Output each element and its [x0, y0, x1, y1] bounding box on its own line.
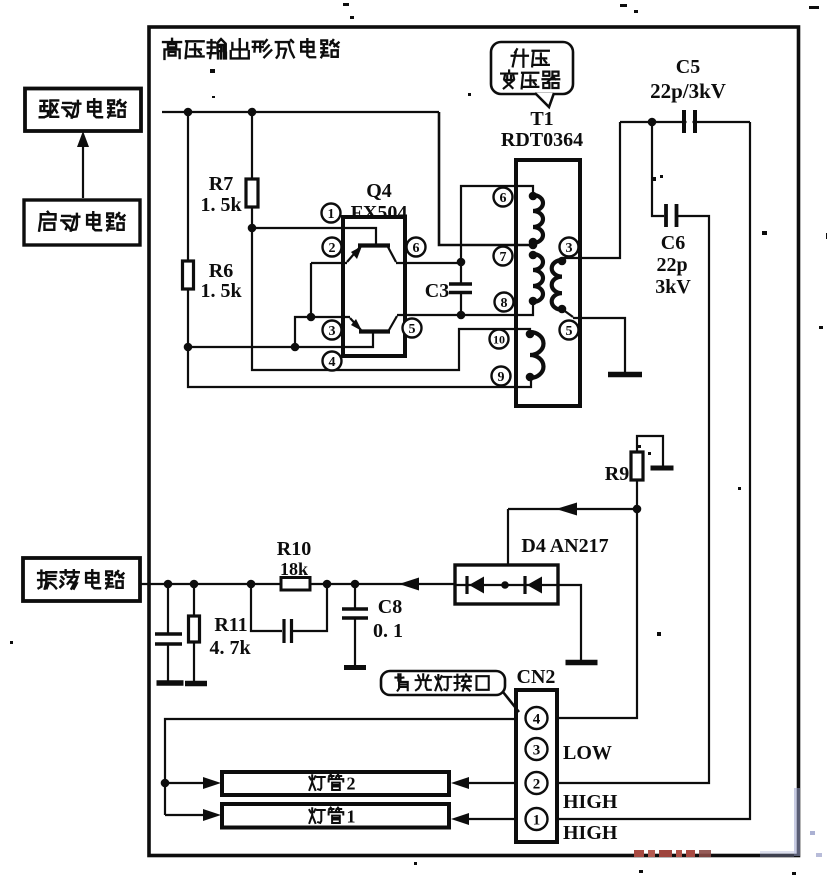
svg-text:HIGH: HIGH [563, 822, 618, 844]
pin 1 of CN2 [526, 808, 548, 830]
svg-text:8: 8 [501, 296, 508, 311]
wire R7 node down to T1 pin10 [252, 228, 530, 370]
label C5 22p/3kV [650, 56, 726, 103]
resistor R9 [631, 452, 643, 480]
wire R6 top lead [187, 112, 189, 261]
wire through D4 [455, 584, 558, 586]
pin 6 of T1 [494, 188, 513, 207]
capacitor (unlabelled, osc filter) [155, 584, 182, 682]
block 启动电路 (start circuit) [24, 200, 140, 245]
wire to Q4 upper base (pin1 line) [252, 228, 376, 244]
pin 3 of Q4 [323, 321, 342, 340]
wire upper emitter down [310, 263, 312, 317]
pin 2 of Q4 [323, 238, 342, 257]
node osc junction 1 [164, 580, 173, 589]
pin 4 of CN2 [526, 707, 548, 729]
wire T1 pin3 to C5 node [562, 122, 620, 258]
wire R9 bottom lead [636, 480, 638, 509]
pin 1 of Q4 [322, 204, 341, 223]
callout 背光灯接口 (backlight connector) [381, 671, 519, 712]
pin 6 of Q4 [407, 238, 426, 257]
svg-text:3kV: 3kV [655, 276, 691, 298]
label R10 18k [277, 538, 311, 579]
svg-text:R7: R7 [209, 173, 233, 195]
wire CN2 pin2 to lamp2 with arrow [451, 777, 516, 789]
pin 3 of T1 [560, 238, 579, 257]
wire top supply rail [162, 111, 439, 113]
wire oscillator line [140, 583, 455, 585]
winding T1 primary upper (6-7) [529, 192, 543, 247]
svg-text:5: 5 [409, 322, 416, 337]
node R6 bottom junction [184, 343, 193, 352]
wire Q4 upper collector to C3 node [396, 262, 461, 264]
block 振荡电路 (oscillator circuit) [23, 558, 140, 601]
ground (C8) [344, 665, 366, 670]
capacitor C3 [449, 262, 472, 315]
svg-text:1. 5k: 1. 5k [200, 280, 242, 302]
label R6 1.5k [200, 260, 242, 302]
node osc junction 2 [190, 580, 199, 589]
label R7 1.5k [200, 173, 242, 216]
svg-text:22p/3kV: 22p/3kV [650, 79, 726, 103]
svg-text:4. 7k: 4. 7k [209, 637, 251, 659]
svg-text:10: 10 [493, 332, 505, 346]
wire R11 bottom lead [193, 642, 195, 683]
transistor Q2b lower (inside Q4) [350, 316, 397, 332]
pin 7 of T1 [494, 247, 513, 266]
node junction y347 [291, 343, 300, 352]
label T1 RDT0364 [501, 108, 583, 151]
svg-text:R6: R6 [209, 260, 233, 282]
diode block D4 [455, 565, 558, 604]
winding T1 feedback (10-9) [526, 330, 544, 382]
svg-text:18k: 18k [280, 559, 308, 579]
capacitor C8 [342, 584, 368, 666]
node R7 bottom junction [248, 224, 257, 233]
pin 2 of CN2 [526, 772, 548, 794]
wire Q4 base rail (y347) [188, 333, 373, 347]
svg-text:T1: T1 [530, 108, 553, 130]
ground (osc filter cap) [157, 680, 184, 686]
wire rail to T1 pin7 [439, 112, 533, 245]
node R9 bottom junction [633, 505, 642, 514]
capacitor C5 [684, 110, 695, 133]
wire feedback with arrow to D4 [508, 503, 637, 566]
resistor R6 [183, 261, 194, 289]
watermark red dashes on bottom border [634, 788, 822, 857]
label C6 22p 3kV [655, 232, 691, 298]
svg-text:6: 6 [413, 241, 420, 256]
node lamp common junction [161, 779, 170, 788]
node osc junction 5 [351, 580, 360, 589]
svg-text:FX504: FX504 [351, 202, 408, 224]
pin 3 of CN2 [526, 738, 548, 760]
transistor Q4 block [343, 217, 405, 356]
capacitor parallel to R10 [251, 584, 327, 643]
svg-text:HIGH: HIGH [563, 791, 618, 813]
wire R9 top hook [637, 436, 663, 466]
ground (T1 secondary) [608, 372, 642, 378]
winding T1 primary lower (7-8) [529, 251, 543, 306]
svg-text:CN2: CN2 [517, 666, 556, 688]
wire R7 top lead [251, 112, 253, 179]
wire C3 bottom to T1 pin8 [461, 303, 533, 315]
lamp 灯管1 [222, 804, 449, 828]
wire C6 to HIGH line [557, 216, 709, 783]
node D4 centre tap [501, 581, 509, 589]
wire R6 bottom lead [187, 289, 189, 347]
node C3 top [457, 258, 466, 267]
svg-text:3: 3 [566, 241, 573, 256]
svg-text:4: 4 [533, 711, 541, 727]
svg-text:2: 2 [347, 774, 356, 794]
wire T1 pin6 loop [461, 186, 533, 262]
svg-text:6: 6 [500, 191, 507, 206]
wire C5 to HIGH line (pin1) [557, 122, 750, 819]
svg-text:7: 7 [500, 250, 507, 265]
svg-text:9: 9 [498, 370, 505, 385]
svg-text:3: 3 [533, 742, 541, 758]
wire C5 top line [620, 121, 750, 123]
block 驱动电路 (drive circuit) [25, 89, 141, 132]
node T1 pin7 junction [529, 241, 538, 250]
pin 9 of T1 [492, 367, 511, 386]
resistor R10 [281, 578, 310, 591]
svg-text:RDT0364: RDT0364 [501, 129, 583, 151]
arrow from 启动电路 to 驱动电路 [77, 131, 89, 198]
svg-text:C5: C5 [676, 56, 700, 78]
svg-text:5: 5 [566, 324, 573, 339]
wire D4 right to ground [558, 585, 581, 660]
wire CN2 pin4 to lamps common [165, 719, 516, 815]
callout 升压变压器 (step-up transformer) [491, 42, 573, 107]
label Q4 FX504 [351, 180, 408, 224]
connector CN2 block [516, 690, 557, 842]
winding T1 secondary (3-5) [552, 257, 573, 317]
node C3 bottom [457, 311, 466, 320]
wire node to T1 pin9 (lower horizontal) [188, 347, 531, 387]
svg-text:1: 1 [347, 807, 356, 827]
svg-text:R9: R9 [605, 463, 629, 485]
transformer T1 block [516, 160, 580, 406]
svg-text:Q4: Q4 [366, 180, 392, 202]
pin 8 of T1 [495, 293, 514, 312]
svg-text:2: 2 [329, 241, 336, 256]
wire T1 pin5 to ground [573, 318, 625, 372]
lamp 灯管2 [222, 772, 449, 795]
main circuit border [149, 27, 799, 856]
wire to lamp1 with arrow [165, 809, 221, 821]
wire to lamp2 with arrow [165, 777, 221, 789]
ground (R9 hook) [651, 466, 674, 471]
capacitor C6 [666, 204, 677, 227]
wire R11 top lead [193, 584, 195, 616]
svg-text:LOW: LOW [563, 742, 612, 764]
svg-text:D4 AN217: D4 AN217 [521, 535, 608, 557]
svg-text:2: 2 [533, 776, 541, 792]
wire Q4 lower collector to C3 bottom node [397, 314, 461, 316]
ground (D4) [566, 660, 598, 666]
arrow on oscillator line [399, 578, 419, 591]
svg-text:4: 4 [329, 355, 336, 370]
wire CN2 pin1 to lamp1 with arrow [451, 813, 516, 825]
node junction top rail / R6 [184, 108, 193, 117]
node C5/C6 junction [648, 118, 657, 127]
svg-text:3: 3 [329, 324, 336, 339]
svg-text:1. 5k: 1. 5k [200, 194, 242, 216]
pin 5 of Q4 [403, 319, 422, 338]
wire R7 bottom lead [251, 207, 253, 228]
svg-text:1: 1 [533, 812, 541, 828]
transistor Q2a upper (inside Q4) [311, 246, 396, 264]
svg-text:C8: C8 [378, 596, 402, 618]
wire emitter link [295, 317, 350, 347]
node osc junction 3 [247, 580, 256, 589]
wire node down to CN2 pin4 [557, 509, 637, 718]
svg-text:R11: R11 [214, 614, 247, 636]
label R11 4.7k [209, 614, 251, 659]
svg-text:C6: C6 [661, 232, 685, 254]
diode D4b [525, 576, 542, 594]
resistor R7 [246, 179, 258, 207]
svg-text:0. 1: 0. 1 [373, 620, 403, 642]
node osc junction 4 [323, 580, 332, 589]
pin 4 of Q4 [323, 352, 342, 371]
title 高压输出形成电路 [163, 39, 339, 59]
svg-text:1: 1 [328, 207, 335, 222]
svg-text:22p: 22p [656, 254, 687, 276]
wire C6 branch [652, 122, 664, 216]
pin 5 of T1 [560, 321, 579, 340]
svg-text:C3: C3 [425, 280, 449, 302]
pin 10 of T1 [490, 330, 509, 349]
node junction top rail / R7 [248, 108, 257, 117]
ground (R11) [185, 681, 207, 687]
label C8 0.1 [373, 596, 403, 642]
node emitter junction [307, 313, 316, 322]
resistor R11 [189, 616, 200, 642]
diode D4a [467, 576, 484, 594]
svg-text:R10: R10 [277, 538, 311, 560]
